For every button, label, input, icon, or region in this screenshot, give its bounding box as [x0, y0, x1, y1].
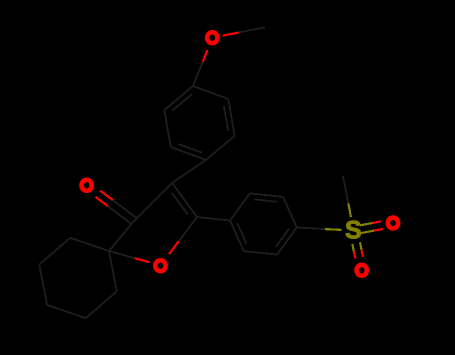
methoxyphenyl ring bond P3-P4	[171, 147, 206, 160]
bond S-CH3	[343, 176, 351, 217]
carbonyl double bond C4=O	[96, 191, 137, 225]
sulfonyl double bond S=O (bottom)	[352, 242, 363, 258]
sulfonyl S label	[345, 217, 362, 245]
cyclohexane ring bond H3-H4	[39, 265, 47, 305]
bond methoxyphenyl(ipso)-C3	[172, 160, 206, 183]
sulfonylphenyl ring bond A2-A3	[283, 197, 297, 228]
furanone bond C5-C4	[109, 221, 134, 251]
methoxyphenyl ring bond P1-P2	[228, 99, 235, 136]
bond A3(para)-S	[297, 228, 342, 230]
ketone O label	[82, 180, 92, 191]
cyclohexane ring bond H2-H3	[47, 305, 86, 318]
svg-text:S: S	[345, 217, 362, 245]
sulfonylphenyl ring bond A0-A1	[230, 193, 250, 220]
bond C2-A0(ipso of sulfonylphenyl)	[197, 217, 230, 221]
sulfonylphenyl aromatic inner line A5-A0	[237, 223, 246, 244]
sulfonyl right O label	[388, 218, 398, 229]
methoxyphenyl aromatic inner line P1-P2	[224, 106, 228, 131]
bond O(methoxy)-CH3	[223, 27, 266, 35]
furanone bond C4-C3	[134, 183, 172, 221]
sulfonylphenyl ring bond A5-A0	[230, 221, 244, 252]
cyclohexane ring bond H5-C5	[70, 238, 109, 251]
sulfonylphenyl aromatic inner line A3-A4	[276, 229, 289, 247]
methoxyphenyl aromatic inner line P5-P0	[172, 94, 192, 110]
methoxy O label	[207, 32, 217, 43]
methoxyphenyl aromatic inner line P3-P4	[178, 144, 202, 153]
furanone bond C3=C2 (main)	[172, 183, 197, 217]
cyclohexane ring bond H1-H2	[86, 291, 117, 318]
sulfonyl double bond S=O (right)	[360, 221, 383, 233]
cyclohexane ring bond C5-H1	[109, 251, 117, 291]
cyclohexane ring bond H4-H5	[39, 238, 70, 265]
sulfonylphenyl ring bond A4-A5	[244, 251, 277, 255]
sulfonylphenyl aromatic inner line A1-A2	[255, 199, 278, 201]
sulfonylphenyl ring bond A1-A2	[250, 193, 283, 197]
sulfonyl bottom O label	[357, 265, 367, 276]
furanone C3=C2 inner double line	[172, 193, 188, 215]
methoxyphenyl ring bond P2-P3	[206, 136, 235, 160]
methoxyphenyl ring bond P5-P0	[164, 86, 193, 110]
furanone bond C2-O1	[169, 217, 197, 254]
furanone ring O label	[155, 260, 165, 271]
methoxyphenyl ring bond P4-P5	[164, 110, 171, 147]
furanone bond O1-C5(spiro)	[109, 251, 150, 262]
sulfonylphenyl ring bond A3-A4	[277, 228, 297, 255]
bond O(methoxy)-C(para of methoxyphenyl)	[193, 50, 207, 86]
methoxyphenyl ring bond P0-P1	[193, 86, 228, 99]
